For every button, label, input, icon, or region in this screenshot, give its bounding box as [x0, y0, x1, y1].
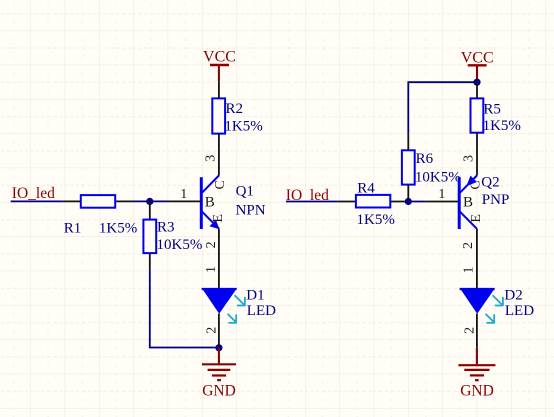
svg-text:B: B [205, 194, 215, 210]
svg-text:GND: GND [460, 383, 494, 400]
wire junction to R3 [149, 201, 151, 219]
resistor R3 [143, 219, 202, 253]
svg-text:VCC: VCC [461, 49, 494, 66]
wire Q2 to D2 [476, 229, 478, 288]
ground GND (left) [202, 348, 236, 400]
svg-text:2: 2 [462, 327, 477, 334]
wire Q1 emitter to D1 [218, 229, 220, 289]
svg-text:R5: R5 [483, 102, 501, 118]
resistor R4 [356, 180, 395, 227]
svg-text:2: 2 [204, 327, 219, 334]
svg-text:1: 1 [204, 266, 219, 273]
svg-text:R6: R6 [416, 151, 434, 167]
svg-text:10K5%: 10K5% [415, 170, 461, 186]
wire R3 to ground node [150, 270, 219, 347]
svg-text:2: 2 [461, 242, 476, 249]
svg-text:D2: D2 [504, 288, 522, 304]
resistor R5 [471, 98, 521, 134]
LED D1 [202, 288, 246, 323]
resistor R1 [64, 195, 137, 236]
junction node VCC (right) [473, 79, 480, 86]
pin R4 left [338, 201, 356, 203]
svg-text:E: E [211, 214, 226, 223]
svg-text:1K5%: 1K5% [99, 220, 137, 236]
transistor Q1 [201, 176, 219, 230]
wire VCC to R2 [218, 81, 220, 98]
ground GND (right) [458, 348, 495, 400]
svg-text:PNP: PNP [482, 192, 510, 208]
power port VCC (left) [203, 48, 236, 81]
svg-text:1K5%: 1K5% [483, 118, 521, 134]
LED D2 [460, 288, 504, 323]
pin R4 right [390, 201, 408, 203]
svg-text:1K5%: 1K5% [224, 119, 262, 135]
svg-text:NPN: NPN [236, 203, 266, 219]
resistor R6 [402, 150, 461, 185]
wire D1 to ground node [218, 314, 220, 348]
pin R1 right [115, 200, 133, 202]
svg-text:3: 3 [462, 155, 477, 162]
svg-text:C: C [213, 180, 228, 189]
svg-text:R4: R4 [357, 180, 375, 196]
svg-text:D1: D1 [246, 288, 264, 304]
wire R1 to junction to Q1 [134, 200, 168, 202]
pin Q2 base [425, 201, 459, 203]
pin R1 left [63, 200, 81, 202]
svg-text:Q1: Q1 [236, 183, 254, 199]
wire D2 to GND [476, 314, 478, 348]
pin R3 bottom [149, 253, 151, 270]
junction node base (left) [146, 198, 153, 205]
svg-text:3: 3 [203, 155, 218, 162]
resistor R2 [212, 98, 262, 134]
junction node ground (left) [215, 344, 222, 351]
svg-text:1: 1 [438, 187, 445, 202]
wire VCC to R5 [476, 82, 478, 98]
power port VCC (right) [461, 49, 494, 81]
svg-text:Q2: Q2 [481, 175, 499, 191]
svg-text:GND: GND [202, 383, 236, 400]
transistor Q2 [459, 176, 477, 230]
wire R6 to base junction [407, 185, 409, 202]
wire VCC junction to R6 [408, 82, 477, 133]
svg-text:1: 1 [180, 187, 187, 202]
wire IO_led to R4 [286, 201, 338, 203]
svg-text:B: B [463, 194, 473, 210]
svg-text:1: 1 [461, 267, 476, 274]
wire IO_led to R1 [11, 200, 63, 202]
svg-text:R2: R2 [226, 101, 244, 117]
wire R5 to Q2 [476, 133, 478, 176]
wire junction to Q2 [408, 201, 425, 203]
wire R2 to Q1 collector [218, 134, 220, 176]
svg-text:E: E [469, 214, 484, 223]
svg-text:1K5%: 1K5% [357, 212, 395, 228]
svg-text:R1: R1 [64, 220, 82, 236]
svg-text:R3: R3 [157, 219, 175, 235]
svg-text:2: 2 [204, 241, 219, 248]
pin Q1 base [167, 200, 201, 202]
svg-text:VCC: VCC [203, 48, 236, 65]
svg-text:LED: LED [505, 303, 534, 319]
svg-text:10K5%: 10K5% [157, 237, 203, 253]
svg-text:LED: LED [247, 303, 276, 319]
junction node base (right) [405, 198, 412, 205]
wire R6 top pin [407, 133, 409, 150]
svg-text:IO_led: IO_led [12, 185, 55, 202]
